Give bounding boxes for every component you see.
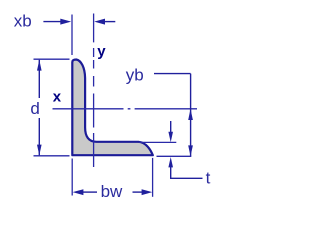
dimension xb : right arrowhead xyxy=(94,19,105,25)
y axis (dash-dot centroid line) xyxy=(93,14,95,168)
dimension yb : top arrowhead xyxy=(188,109,193,120)
svg-text:bw: bw xyxy=(101,182,123,201)
dimension bw : right extension line xyxy=(152,158,154,197)
dimension xb : right leader line xyxy=(105,21,116,23)
svg-text:y: y xyxy=(97,43,106,60)
dimension yb : bottom arrowhead xyxy=(188,145,193,156)
dimension bw : left line xyxy=(83,191,98,193)
dimension d : bottom arrowhead xyxy=(37,145,42,156)
dimension t : upper arrowhead xyxy=(168,132,173,143)
dimension d : top arrowhead xyxy=(37,60,42,71)
svg-text:yb: yb xyxy=(126,66,144,85)
svg-text:d: d xyxy=(30,99,39,118)
dimension yb : leader from label xyxy=(154,74,191,157)
svg-text:t: t xyxy=(206,169,211,188)
dimension t : top extension line (flange top face) xyxy=(139,141,176,143)
svg-text:xb: xb xyxy=(14,11,32,30)
x axis (dash-dot centroid line) xyxy=(53,108,198,110)
dimension bw : right arrowhead xyxy=(142,189,153,195)
dimension xb : left leader line xyxy=(43,21,62,23)
dimension d : bottom extension line xyxy=(34,155,70,157)
dimension xb : left arrowhead xyxy=(60,19,71,25)
dimension xb : extension line at outer face xyxy=(71,15,73,56)
bottom face extension line xyxy=(157,155,192,157)
dimension bw : left arrowhead xyxy=(73,189,84,195)
svg-text:x: x xyxy=(53,89,62,106)
dimension d : top extension line xyxy=(34,58,70,60)
dimension t : lower leader with elbow to label xyxy=(171,167,203,179)
angle profile (L-section) xyxy=(72,60,153,156)
dimension bw : left extension line xyxy=(71,159,73,196)
dimension d : dimension line xyxy=(38,60,40,156)
dimension t : upper leader line xyxy=(170,121,172,133)
dimension bw : right line xyxy=(133,191,143,193)
dimension t : lower arrowhead xyxy=(168,157,173,167)
